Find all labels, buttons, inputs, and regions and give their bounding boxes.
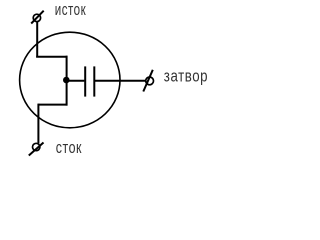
capacitor plate right (gate insulator) — [93, 66, 95, 96]
wire drain lead vertical — [37, 104, 39, 144]
capacitor plate left (gate insulator) — [84, 66, 86, 96]
pin terminal drain — [29, 143, 44, 156]
svg-text:сток: сток — [56, 140, 82, 158]
wire source horizontal — [36, 56, 67, 58]
wire gate outer — [95, 80, 146, 82]
channel bar — [66, 56, 68, 106]
wire source lead vertical — [36, 21, 38, 57]
svg-text:исток: исток — [55, 1, 86, 19]
wire drain horizontal — [38, 104, 67, 106]
transistor body circle VT1 — [20, 32, 120, 128]
junction node gate-channel — [63, 77, 70, 84]
pin terminal gate — [143, 70, 153, 92]
svg-text:затвор: затвор — [164, 68, 208, 86]
pin terminal source — [31, 11, 44, 24]
wire gate inner — [67, 80, 85, 82]
